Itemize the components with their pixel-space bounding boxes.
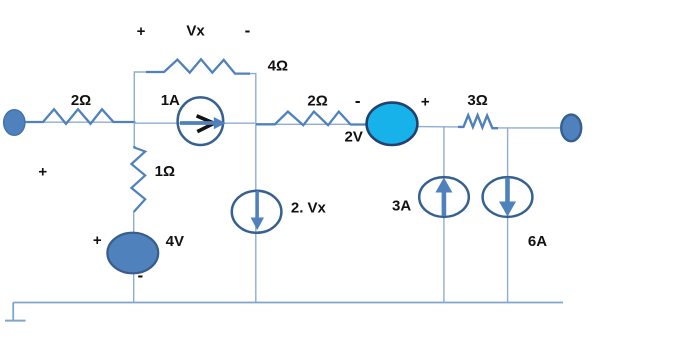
terminal node (left) bbox=[4, 110, 25, 136]
svg-text:+: + bbox=[137, 23, 146, 40]
wire (junction to 3A source and bottom rail) bbox=[443, 127, 445, 303]
svg-text:2Ω: 2Ω bbox=[71, 92, 91, 109]
wire (left vertical of 4-ohm branch) bbox=[134, 72, 148, 122]
svg-text:+: + bbox=[421, 93, 430, 110]
svg-text:4Ω: 4Ω bbox=[268, 58, 288, 75]
1A black chevron arrowhead bbox=[197, 116, 214, 132]
svg-text:-: - bbox=[245, 21, 251, 40]
2.Vx arrow (down) bbox=[256, 191, 259, 219]
wire (1-ohm resistor to 4V source) bbox=[133, 212, 135, 234]
wire (node2 to 2V source) bbox=[256, 123, 367, 125]
svg-text:2. Vx: 2. Vx bbox=[291, 199, 327, 216]
dependent current source 2.Vx bbox=[232, 191, 282, 233]
resistor R4 2-ohm (middle) bbox=[256, 112, 367, 126]
voltage source V3 2V (cyan) bbox=[367, 103, 418, 145]
svg-text:2V: 2V bbox=[345, 128, 363, 145]
svg-text:1A: 1A bbox=[161, 92, 180, 109]
current source 3A (up arrow) bbox=[419, 177, 469, 217]
svg-text:+: + bbox=[93, 232, 102, 249]
bottom rail (ground bus) bbox=[13, 302, 563, 304]
voltage source V1 4V bbox=[107, 233, 158, 274]
wire (4V source to bottom rail) bbox=[133, 272, 135, 303]
svg-text:6A: 6A bbox=[528, 233, 547, 250]
current source I1 1A bbox=[178, 97, 224, 145]
terminal node (right) bbox=[561, 115, 581, 142]
svg-text:+: + bbox=[38, 164, 47, 181]
wire (node1 down to 1-ohm resistor) bbox=[133, 122, 135, 147]
wire (2V source to 3-ohm resistor) bbox=[418, 126, 459, 128]
main wire (through 1A source to node 2) bbox=[134, 122, 256, 124]
wire (3-ohm resistor to right terminal) bbox=[498, 127, 562, 129]
svg-text:-: - bbox=[137, 266, 143, 285]
svg-text:4V: 4V bbox=[166, 233, 184, 250]
1A arrow (blue) bbox=[180, 121, 215, 125]
ground stub bbox=[12, 303, 14, 321]
wire (right vertical of 4-ohm branch down to bottom rail) bbox=[249, 74, 256, 303]
svg-text:Vx: Vx bbox=[186, 23, 205, 40]
main wire (left section) bbox=[25, 121, 136, 123]
resistor R2 4-ohm (top branch) bbox=[146, 59, 250, 73]
resistor R3 1-ohm (vertical) bbox=[131, 146, 145, 212]
resistor R5 3-ohm bbox=[458, 115, 498, 128]
svg-text:3A: 3A bbox=[392, 198, 411, 215]
resistor R1 2-ohm (left) bbox=[25, 109, 134, 124]
current source 6A (down arrow) bbox=[483, 177, 533, 217]
svg-text:-: - bbox=[355, 91, 361, 110]
svg-text:3Ω: 3Ω bbox=[467, 92, 487, 109]
svg-text:1Ω: 1Ω bbox=[155, 163, 175, 180]
wire (junction to 6A source and bottom rail) bbox=[507, 127, 509, 302]
svg-text:2Ω: 2Ω bbox=[307, 92, 327, 109]
